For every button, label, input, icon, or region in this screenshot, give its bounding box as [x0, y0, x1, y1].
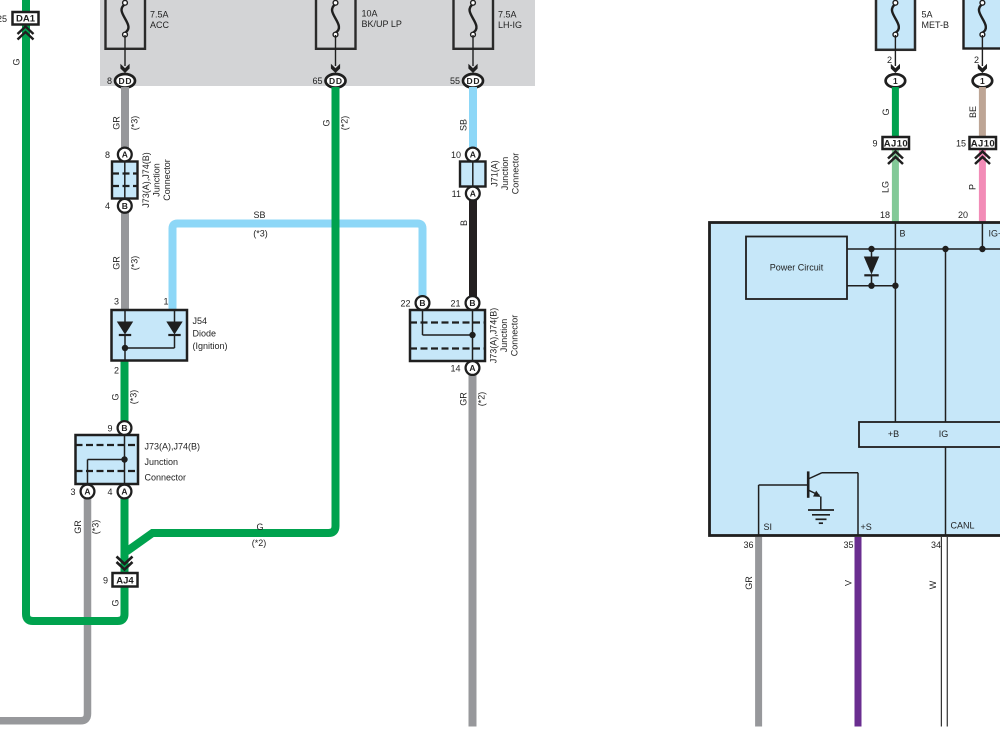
node IG rail	[942, 246, 948, 252]
meter internal line IG+ vertical	[981, 223, 983, 250]
pin circle 4 A	[118, 485, 132, 499]
+B IG box	[859, 422, 1000, 447]
svg-text:P: P	[968, 184, 978, 190]
meter diode	[871, 249, 873, 257]
svg-text:G: G	[111, 599, 121, 606]
pin circle 11 A	[466, 187, 480, 201]
svg-text:G: G	[12, 58, 22, 65]
chevron into AJ4	[117, 557, 133, 570]
pin circle 10 A	[466, 148, 480, 162]
svg-text:BK/UP LP: BK/UP LP	[362, 19, 402, 29]
wire GR junction connector 3A to left edge	[0, 498, 88, 721]
svg-text:9: 9	[107, 423, 112, 433]
wire P AJ10 to meter pin 20	[979, 148, 986, 223]
svg-text:18: 18	[880, 210, 890, 220]
svg-text:21: 21	[450, 298, 460, 308]
junction connector J73/J74 lower	[76, 435, 139, 484]
junction connector J71(A)	[460, 162, 486, 187]
wire G oval to AJ10	[892, 87, 899, 138]
svg-text:+S: +S	[861, 522, 872, 532]
svg-text:A: A	[122, 150, 128, 160]
svg-text:(*2): (*2)	[252, 538, 267, 548]
meter internal line IG vertical	[945, 249, 947, 422]
svg-text:(*3): (*3)	[129, 390, 139, 405]
fuse F2 10A BK/UP LP body	[316, 0, 356, 49]
meter internal CANL vertical	[945, 447, 947, 535]
svg-text:9: 9	[103, 576, 108, 586]
pin circle 21 B	[466, 296, 480, 310]
ground at transistor emitter	[820, 497, 822, 511]
wire B J71 to junction connector 21B	[469, 200, 477, 298]
svg-text:BE: BE	[968, 106, 978, 118]
svg-text:DD: DD	[329, 76, 342, 86]
pin circle 3 A	[81, 485, 95, 499]
wire GR junction connector 14A down	[469, 372, 477, 727]
svg-text:J73(A),J74(B): J73(A),J74(B)	[141, 152, 151, 208]
svg-text:B: B	[459, 220, 469, 226]
svg-text:G: G	[256, 522, 263, 532]
svg-text:B: B	[419, 298, 425, 308]
chevron into AJ10 right	[975, 152, 990, 165]
svg-text:(*3): (*3)	[253, 229, 268, 239]
wire V pin 35 down	[855, 537, 862, 727]
wire GR pin 36 down	[755, 537, 762, 727]
fuse F2 element	[332, 4, 339, 33]
pin circle 9 B	[118, 421, 132, 435]
wire SB fuse LH-IG to J71	[469, 87, 477, 150]
svg-text:Junction: Junction	[499, 319, 509, 353]
junction connector J73/J74 upper	[112, 162, 138, 199]
svg-text:34: 34	[931, 540, 941, 550]
svg-text:4: 4	[105, 201, 110, 211]
chevron into DA1	[18, 27, 34, 40]
junction connector J73/J74 right	[410, 310, 485, 361]
J54 internal wire and node	[125, 347, 175, 349]
fuse F5 lead arrow pin 2	[981, 35, 983, 66]
chevron into AJ10 left	[888, 152, 903, 165]
node diode top	[868, 246, 874, 252]
svg-text:GR: GR	[112, 256, 122, 270]
svg-text:Diode: Diode	[193, 329, 217, 339]
connector AJ10 right	[970, 137, 997, 149]
connector oval 1 (right)	[973, 74, 993, 87]
svg-text:1: 1	[980, 76, 985, 86]
svg-text:Power Circuit: Power Circuit	[770, 263, 824, 273]
svg-text:DD: DD	[467, 76, 480, 86]
fuse F5 body	[964, 0, 1000, 49]
pin circle 14 A	[466, 361, 480, 375]
pin circle 8 A	[118, 148, 132, 162]
wire GR junction connector to J54 pin 3	[121, 212, 129, 310]
svg-text:J54: J54	[193, 316, 208, 326]
svg-text:15: 15	[956, 139, 966, 149]
combination meter box	[710, 223, 1000, 536]
meter internal lower rail	[847, 285, 895, 287]
svg-text:CANL: CANL	[951, 521, 975, 531]
wire G DA1 loop to AJ4 (over GR)	[26, 24, 125, 621]
svg-text:B: B	[469, 298, 475, 308]
svg-text:25: 25	[0, 14, 7, 24]
fuse F4 lead arrow pin 2	[894, 35, 896, 66]
svg-text:2: 2	[974, 55, 979, 65]
svg-text:A: A	[121, 487, 127, 497]
svg-text:DD: DD	[119, 76, 132, 86]
svg-text:10: 10	[451, 150, 461, 160]
svg-text:55: 55	[450, 76, 460, 86]
svg-text:Junction: Junction	[145, 457, 179, 467]
svg-text:AJ10: AJ10	[884, 138, 908, 149]
svg-text:J73(A),J74(B): J73(A),J74(B)	[489, 308, 499, 364]
svg-text:(*2): (*2)	[340, 116, 350, 131]
svg-text:G: G	[322, 119, 332, 126]
svg-text:SB: SB	[459, 119, 469, 131]
wire +S collector down	[857, 473, 859, 535]
svg-text:Junction: Junction	[152, 163, 162, 197]
svg-text:3: 3	[70, 487, 75, 497]
svg-text:Junction: Junction	[500, 157, 510, 191]
svg-text:2: 2	[887, 55, 892, 65]
svg-text:2: 2	[114, 366, 119, 376]
svg-text:A: A	[470, 189, 476, 199]
svg-text:(Ignition): (Ignition)	[193, 341, 228, 351]
svg-text:W: W	[928, 580, 938, 589]
fuse F3 element	[470, 4, 477, 33]
svg-text:1: 1	[893, 76, 898, 86]
svg-text:B: B	[900, 229, 906, 239]
svg-text:35: 35	[843, 540, 853, 550]
svg-text:65: 65	[312, 76, 322, 86]
J54 diode box	[112, 310, 188, 361]
connector AJ10 left	[883, 137, 910, 149]
svg-text:DA1: DA1	[16, 14, 36, 25]
svg-text:14: 14	[450, 363, 460, 373]
connector oval 55 DD	[463, 74, 483, 88]
fuse F2 lead arrow	[335, 35, 337, 66]
svg-text:7.5A: 7.5A	[498, 10, 517, 20]
svg-text:G: G	[111, 393, 121, 400]
fuse F1 element	[122, 4, 129, 33]
svg-text:B: B	[122, 201, 128, 211]
svg-text:SI: SI	[764, 522, 773, 532]
svg-text:V: V	[844, 580, 854, 586]
svg-text:IG+: IG+	[989, 229, 1000, 239]
meter internal top rail	[847, 248, 1000, 250]
svg-text:1: 1	[163, 297, 168, 307]
fuse F1 lead arrow	[124, 35, 126, 66]
svg-text:SB: SB	[253, 210, 265, 220]
meter internal line B vertical	[894, 223, 896, 423]
fuse F5 element	[979, 4, 986, 33]
fuse F1 7.5A ACC body	[106, 0, 146, 49]
fuse F4 element	[892, 4, 899, 33]
J54 diode D1	[124, 310, 126, 322]
node IG+ rail	[979, 246, 985, 252]
wire SB J54 pin1 to junction connector 22B	[173, 224, 423, 311]
svg-text:22: 22	[400, 298, 410, 308]
pin circle 22 B	[416, 296, 430, 310]
svg-text:(*3): (*3)	[130, 116, 140, 131]
svg-text:J71(A): J71(A)	[490, 160, 500, 187]
connector oval 8 DD	[115, 74, 135, 88]
svg-text:AJ4: AJ4	[116, 575, 134, 586]
svg-text:GR: GR	[112, 116, 122, 130]
transistor Q1	[807, 471, 810, 497]
junction block gray band	[100, 0, 535, 86]
pin circle 4 B	[118, 199, 132, 213]
svg-text:5A: 5A	[922, 10, 933, 20]
meter transistor circuit SI	[758, 485, 760, 535]
svg-text:A: A	[469, 363, 475, 373]
svg-text:3: 3	[114, 297, 119, 307]
connector AJ4	[113, 573, 138, 587]
svg-text:36: 36	[743, 540, 753, 550]
svg-text:4: 4	[107, 487, 112, 497]
svg-text:A: A	[84, 487, 90, 497]
svg-text:LH-IG: LH-IG	[498, 20, 522, 30]
svg-text:(*3): (*3)	[91, 520, 101, 535]
svg-text:J73(A),J74(B): J73(A),J74(B)	[145, 442, 201, 452]
svg-text:A: A	[470, 150, 476, 160]
connector DA1	[13, 12, 39, 25]
wire G J54 pin2 to junction connector 9B	[121, 360, 129, 423]
svg-text:+B: +B	[888, 429, 899, 439]
svg-text:LG: LG	[881, 181, 891, 193]
svg-text:7.5A: 7.5A	[150, 10, 169, 20]
wire BE oval to AJ10 right	[979, 87, 986, 138]
wire GR fuse ACC to junction connector	[121, 87, 129, 150]
svg-text:GR: GR	[459, 392, 469, 406]
svg-text:Connector: Connector	[510, 315, 520, 357]
svg-text:8: 8	[107, 76, 112, 86]
svg-text:ACC: ACC	[150, 20, 170, 30]
svg-text:GR: GR	[73, 520, 83, 534]
svg-text:IG: IG	[939, 429, 949, 439]
connector oval 1 (MET-B)	[886, 74, 906, 87]
svg-text:11: 11	[452, 189, 461, 199]
svg-text:8: 8	[105, 150, 110, 160]
svg-text:B: B	[121, 423, 127, 433]
connector oval 65 DD	[326, 74, 346, 88]
fuse F4 5A MET-B body	[876, 0, 915, 50]
svg-text:9: 9	[872, 139, 877, 149]
svg-text:Connector: Connector	[145, 473, 187, 483]
svg-text:10A: 10A	[362, 9, 378, 19]
fuse F3 7.5A LH-IG body	[454, 0, 494, 49]
fuse F3 lead arrow	[472, 35, 474, 66]
wire G above DA1	[22, 0, 30, 12]
svg-text:20: 20	[958, 210, 968, 220]
svg-text:(*3): (*3)	[130, 256, 140, 271]
wire LG AJ10 to meter pin 18	[892, 148, 899, 223]
J54 diode D2	[174, 310, 176, 322]
wire G fuse BK/UP LP down to AJ4 (over SB)	[127, 87, 336, 552]
wire W pin 34 down	[941, 537, 948, 727]
svg-text:Connector: Connector	[162, 159, 172, 201]
svg-text:AJ10: AJ10	[971, 138, 995, 149]
power circuit box	[746, 237, 847, 300]
svg-text:G: G	[881, 108, 891, 115]
svg-text:Connector: Connector	[511, 153, 521, 195]
svg-text:MET-B: MET-B	[922, 20, 950, 30]
svg-text:GR: GR	[744, 576, 754, 590]
svg-text:(*2): (*2)	[477, 392, 487, 407]
